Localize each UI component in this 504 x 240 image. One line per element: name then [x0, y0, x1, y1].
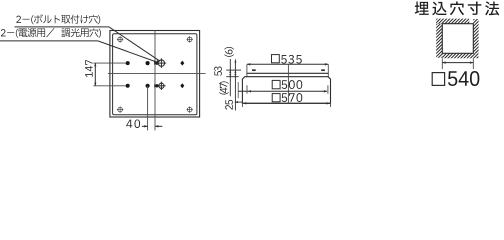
dim (47) text	[219, 81, 228, 94]
title 埋込穴寸法	[415, 1, 499, 15]
top row hole dot left	[126, 61, 130, 65]
spring clip right	[321, 69, 325, 71]
dim 540 ext stubs	[441, 58, 443, 69]
dim 40 line right seg	[155, 125, 162, 127]
label bolt hole	[16, 14, 100, 24]
dim 40 text	[126, 119, 140, 128]
housing top	[247, 72, 328, 74]
label power hole underline	[0, 40, 98, 42]
dim 570 ext right	[330, 103, 332, 107]
dim 535 line	[247, 63, 328, 65]
height dim line V2	[234, 59, 236, 110]
dim 570 arrows	[243, 102, 246, 104]
height dim line V1	[229, 59, 231, 96]
label power hole part1	[1, 28, 55, 38]
dim 535 ext right / housing side	[327, 64, 329, 76]
dim 540 label	[432, 73, 444, 86]
height tick y76.7	[226, 76, 238, 78]
dim 535 arrows	[247, 63, 250, 65]
fixture outer square (bottom view)	[110, 31, 200, 118]
height arrows V1	[229, 70, 231, 73]
fixture center line	[287, 64, 289, 103]
leader to power hole	[98, 41, 157, 62]
corner screw bottom-left	[118, 107, 123, 112]
dim 535 label	[272, 55, 280, 63]
flange outline	[242, 77, 330, 104]
dim 25 text	[225, 100, 233, 110]
dim 500 arrows	[248, 90, 251, 92]
dim 570 line on flange bottom	[243, 102, 330, 104]
dim 147 line	[94, 63, 96, 86]
dim 40 line left seg	[142, 125, 148, 127]
dim (6) text	[224, 47, 233, 57]
dim 500 ext stubs	[246, 85, 248, 94]
dim 40 ext line	[147, 86, 149, 131]
bottom row bolt hole crosshair	[159, 83, 164, 88]
top row diamond hole	[180, 61, 184, 66]
height dim line V3	[237, 82, 239, 98]
height arrow at flange bottom	[235, 101, 238, 103]
label power hole part2	[61, 28, 101, 38]
hole square	[442, 24, 473, 54]
dim 147 text	[85, 60, 92, 77]
bottom hole row extension line	[93, 85, 128, 87]
plate center line vertical	[154, 31, 156, 131]
bottom row hole dot left	[126, 84, 130, 88]
dim 535 ext left / housing side	[246, 64, 248, 76]
plate center line horizontal	[108, 73, 206, 75]
label bolt hole underline	[15, 26, 110, 28]
height tick y70	[226, 69, 241, 71]
top row keyhole slot	[154, 61, 157, 65]
corner screw top-left	[118, 37, 123, 42]
height arrows V2	[234, 62, 236, 65]
spring clip left	[252, 69, 256, 71]
top row hole dot mid	[146, 61, 150, 65]
dim 570 label	[272, 94, 280, 102]
top row bolt hole crosshair	[158, 60, 164, 66]
bottom row keyhole slot	[154, 84, 157, 88]
dim 540 arrows	[442, 61, 445, 63]
dim 570 ext left	[241, 103, 243, 107]
fixture inner square border	[113, 34, 197, 115]
dim 40 arrow left	[144, 125, 147, 127]
dim 500 line	[239, 90, 328, 92]
dim 53 text	[214, 67, 222, 76]
corner screw bottom-right	[187, 107, 192, 112]
bottom row diamond hole	[180, 83, 184, 88]
leader to bolt hole	[109, 27, 160, 61]
dim 40 arrow right	[155, 125, 158, 127]
corner screw top-right	[187, 37, 192, 42]
top hole row extension line	[93, 62, 128, 64]
dim 147 arrow down	[94, 83, 96, 86]
bottom row hole dot mid	[146, 84, 150, 88]
dim 500 label	[272, 80, 280, 88]
dim 147 arrow up	[94, 63, 96, 66]
dim 540 line	[442, 62, 473, 64]
